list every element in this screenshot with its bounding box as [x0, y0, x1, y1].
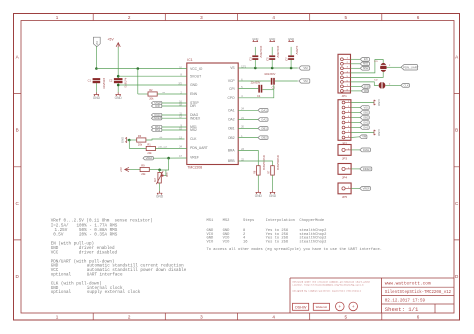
svg-text:GND: GND	[288, 37, 294, 41]
ground below R7	[269, 190, 277, 198]
capacitor C7 1u/50V	[285, 46, 300, 61]
wire C7 to GND	[290, 47, 292, 56]
node EN JP1 flag	[360, 57, 369, 61]
node OA2 JP2 flag	[360, 120, 369, 124]
svg-text:OB2: OB2	[228, 136, 235, 140]
node VM JP2 flag	[360, 135, 367, 139]
svg-text:ENN: ENN	[190, 92, 198, 96]
frame column label 3	[200, 15, 203, 319]
svg-text:+5V: +5V	[119, 167, 123, 172]
node OA2 output flag	[258, 118, 268, 122]
frame column tick	[381, 14, 383, 321]
wire C5 to GND	[271, 47, 273, 56]
wire JP2 OA2	[351, 122, 360, 124]
svg-text:C2: C2	[109, 79, 113, 83]
frame column tick	[92, 14, 94, 321]
svg-text:Designed by Stephan Watterott: Designed by Stephan Watterott (Watterott…	[293, 290, 361, 293]
svg-text:DIR: DIR	[364, 90, 368, 93]
wire GND to junction	[127, 139, 130, 141]
svg-text:STEP: STEP	[364, 85, 371, 88]
svg-text:JP3: JP3	[342, 157, 348, 161]
pin number 2 (SJ2)	[389, 83, 391, 85]
svg-text:1: 1	[56, 314, 59, 319]
svg-text:ChopperMode: ChopperMode	[299, 218, 324, 223]
svg-text:GND: GND	[190, 83, 198, 87]
resistor R1 20k	[146, 143, 155, 155]
svg-text:100n/50V: 100n/50V	[102, 78, 106, 89]
svg-text:MS2: MS2	[155, 128, 161, 132]
node OA1 JP2 flag	[360, 125, 369, 129]
frame row label C	[16, 201, 460, 206]
connector JP5 pin 1	[342, 187, 351, 190]
svg-text:1u/50V: 1u/50V	[295, 46, 299, 55]
svg-text:20k: 20k	[138, 142, 143, 146]
svg-text:UART interface: UART interface	[87, 273, 123, 278]
node OA1 output flag	[258, 108, 268, 112]
connector JP5 body	[338, 183, 351, 199]
title document name	[385, 290, 452, 295]
ground above C7	[288, 37, 294, 42]
svg-text:IC1: IC1	[187, 58, 192, 62]
wire MS1 to IC	[162, 126, 187, 128]
capacitor C4 22n/50V	[251, 80, 263, 98]
svg-text:6: 6	[417, 314, 420, 319]
svg-text:VM: VM	[362, 135, 366, 139]
svg-text:2: 2	[128, 314, 131, 319]
node OB1 output flag	[258, 126, 268, 130]
power +5V symbol (VREF divider)	[119, 167, 130, 172]
junction divider top	[158, 169, 161, 172]
svg-text:GND: GND	[377, 129, 381, 137]
svg-text:CLK: CLK	[404, 83, 409, 87]
wire INDEX to IC	[162, 117, 187, 119]
wire JP1 DIR	[351, 90, 362, 92]
title block outline	[290, 278, 454, 313]
wire DIAG to IC	[162, 114, 187, 116]
connector JP3 body	[338, 145, 351, 161]
capacitor C3 100n/50V	[249, 46, 264, 61]
note CLK modes	[51, 281, 141, 295]
IC1 right pin names	[227, 66, 235, 163]
note microstep table	[207, 218, 327, 244]
wire JP3 to DIAG	[351, 149, 360, 151]
svg-text:+: +	[352, 304, 355, 309]
svg-text:4: 4	[272, 314, 275, 319]
svg-text:driver disabled: driver disabled	[79, 250, 118, 255]
node CLK flag	[401, 83, 410, 87]
resistor R7 0R11	[268, 155, 279, 175]
wire C7 to VS	[290, 59, 292, 68]
svg-text:20% - 0.35A RMS: 20% - 0.35A RMS	[79, 233, 118, 238]
svg-text:Yes to 256: Yes to 256	[266, 240, 289, 244]
wire VIO to VCC_IO	[96, 68, 186, 70]
note PDN/UART modes	[51, 259, 187, 277]
svg-text:BRB: BRB	[228, 159, 236, 163]
solder jumper SJ2	[374, 79, 385, 89]
svg-text:PDN_UART: PDN_UART	[190, 146, 208, 150]
power +5V symbol	[107, 38, 120, 48]
svg-text:JP5: JP5	[342, 195, 348, 199]
svg-text:VIO: VIO	[95, 41, 99, 45]
svg-text:+5V: +5V	[107, 38, 114, 42]
svg-text:3: 3	[200, 314, 203, 319]
svg-text:optional: optional	[51, 273, 72, 278]
title date	[385, 300, 426, 304]
wire JP2 OA1	[351, 127, 360, 129]
IC1 right pin numbers	[241, 66, 246, 161]
svg-text:CPO: CPO	[227, 96, 235, 100]
net label en	[163, 92, 166, 94]
svg-text:GND: GND	[377, 99, 381, 107]
wire JP1 pin4 to SJ1	[351, 60, 384, 73]
junction 5VOUT	[117, 75, 120, 78]
svg-text:0.5V: 0.5V	[53, 233, 64, 238]
svg-text:02.12.2017 17:59: 02.12.2017 17:59	[385, 300, 426, 304]
ground flag left of R3	[120, 137, 126, 143]
wire JP2 pin1 GND	[351, 102, 374, 104]
wire DIR to IC	[162, 105, 187, 107]
wire R7 to GND	[272, 175, 274, 190]
wire JP2 OB2	[351, 117, 360, 119]
wire JP2 pin8 VM	[351, 136, 360, 139]
svg-text:VREF: VREF	[190, 156, 199, 160]
svg-text:+: +	[338, 304, 341, 309]
trimmer wiper arrow	[161, 174, 164, 176]
wire OA1	[238, 109, 258, 111]
node OB2 JP2 flag	[360, 115, 369, 119]
svg-text:MS2: MS2	[190, 128, 197, 132]
supply flag VIO	[93, 37, 100, 47]
wire C1 to GND	[95, 83, 97, 92]
junction VS C7	[290, 67, 293, 70]
svg-text:optional: optional	[51, 290, 72, 295]
svg-text:INDEX: INDEX	[154, 116, 162, 120]
svg-text:5: 5	[345, 314, 348, 319]
wire VREF node to divider	[160, 158, 169, 170]
IC1 left pin numbers	[178, 67, 182, 158]
svg-text:C3: C3	[249, 57, 253, 61]
wire JP1 EN	[351, 58, 361, 60]
svg-text:3: 3	[200, 15, 203, 20]
wire C2 to GND	[117, 83, 119, 92]
node INDEX JP4 flag	[360, 167, 372, 171]
wire +5V down	[117, 47, 119, 78]
wire C3 to GND	[254, 47, 256, 56]
wire into trimmer top	[159, 170, 161, 173]
ground above C3	[252, 37, 258, 42]
capacitor C6 100n/50V	[264, 72, 275, 89]
wire VS rail	[238, 67, 298, 69]
net label pdn_uart	[159, 146, 168, 149]
svg-text:R9: R9	[141, 164, 145, 168]
note EN modes	[51, 242, 118, 256]
svg-text:22n/50V: 22n/50V	[251, 80, 261, 84]
node OB2 output flag	[258, 136, 268, 140]
connector JP1 body	[338, 54, 351, 98]
node INDEX input flag	[151, 116, 161, 120]
svg-text:4u7/6V3: 4u7/6V3	[124, 78, 128, 88]
wire SJ2 to CLK flag	[386, 84, 401, 86]
wire BRA	[238, 151, 258, 166]
svg-text:100n/50V: 100n/50V	[276, 46, 280, 58]
junction VS C5	[271, 67, 274, 70]
svg-text:20k: 20k	[147, 151, 152, 155]
node STEP input flag	[151, 101, 161, 105]
note VRef table	[51, 219, 153, 238]
resistor R3 20k	[137, 134, 146, 146]
ground below trimmer	[156, 191, 164, 199]
svg-text:OA1: OA1	[363, 125, 369, 129]
connector JP3 pin 1	[342, 148, 351, 151]
svg-text:Interpolation: Interpolation	[266, 218, 295, 223]
svg-text:B: B	[455, 128, 458, 133]
svg-text:R3: R3	[138, 134, 142, 138]
solder jumper SJ1	[374, 61, 387, 72]
wire MS2 to IC	[162, 129, 187, 131]
wire CPO net	[238, 85, 274, 98]
node DIR input flag	[151, 104, 161, 108]
trimmer R10 4k7	[154, 171, 168, 184]
svg-text:VCC: VCC	[51, 250, 59, 255]
wire trimmer wiper	[164, 170, 166, 176]
svg-text:DIAG: DIAG	[363, 148, 369, 152]
wire C6 to flag	[275, 80, 298, 82]
wire JP1 STEP	[351, 85, 362, 87]
node DIAG input flag	[151, 113, 161, 117]
svg-text:GND: GND	[252, 37, 258, 41]
svg-text:6: 6	[417, 15, 420, 20]
SA logo	[349, 302, 358, 311]
wire R2 to ENN	[157, 93, 187, 95]
svg-text:100n/50V: 100n/50V	[259, 46, 263, 58]
frame row label D	[16, 274, 460, 279]
ground above C5	[269, 37, 275, 42]
wire JP1 MS2	[351, 67, 361, 69]
svg-text:JP1: JP1	[342, 94, 348, 98]
wire OB1	[238, 127, 258, 129]
wire to 5VOUT pin	[118, 75, 187, 77]
wire SJ1 to PDN_UART flag	[387, 66, 401, 68]
junction GND rail	[117, 84, 120, 87]
pin number 2 (SJ1)	[389, 65, 391, 67]
svg-text:MS2: MS2	[223, 219, 230, 223]
connector JP2 body	[338, 100, 351, 146]
wire C5 to VS	[271, 59, 273, 68]
frame column tick	[309, 14, 311, 321]
wire BRB	[238, 161, 272, 166]
frame row tick	[14, 239, 460, 241]
svg-text:C1: C1	[88, 79, 92, 83]
svg-text:GND: GND	[120, 137, 124, 143]
svg-text:R2: R2	[149, 88, 153, 92]
svg-text:CLK: CLK	[190, 137, 197, 141]
wire C3 to VS	[254, 59, 256, 68]
svg-text:stealthChop2: stealthChop2	[299, 239, 326, 244]
svg-text:VCP: VCP	[228, 79, 236, 83]
ground below R6	[255, 190, 263, 198]
wire R9 to trimmer	[149, 169, 159, 171]
ground JP2 pin1	[374, 99, 381, 107]
node OB1 JP2 flag	[360, 110, 369, 114]
junction pulldown node	[128, 139, 131, 142]
wire JP2 OB1	[351, 112, 360, 114]
svg-text:4k7: 4k7	[154, 177, 157, 182]
wire to R2	[138, 93, 148, 95]
svg-text:OA2: OA2	[228, 118, 235, 122]
wire to R1	[129, 148, 146, 150]
junction VS C3	[254, 67, 257, 70]
node DIAG JP3 flag	[360, 148, 371, 152]
svg-text:VCC_IO: VCC_IO	[190, 67, 203, 71]
capacitor C5 100n/50V	[266, 46, 281, 61]
CC logo	[336, 302, 345, 311]
wire GND pin rail	[118, 84, 187, 86]
wire VREF flag to pin	[153, 157, 186, 159]
node MS2 JP1 flag	[360, 66, 369, 70]
frame column label 6	[417, 15, 420, 319]
svg-text:OB2: OB2	[363, 115, 369, 119]
frame column label 4	[272, 15, 275, 319]
wire R1 to PDN_UART	[155, 148, 186, 150]
wire +5V to R9	[130, 169, 141, 171]
svg-text:VREF: VREF	[146, 156, 153, 160]
node VREF JP5 flag	[360, 186, 371, 190]
wire JP1 MS1	[351, 63, 361, 65]
svg-text:RS08G/0R11: RS08G/0R11	[276, 155, 279, 170]
node VM supply flag	[299, 66, 310, 70]
svg-text:SilentStepStick-TMC2208_v12: SilentStepStick-TMC2208_v12	[385, 290, 452, 295]
svg-text:20k: 20k	[149, 96, 154, 100]
svg-text:2: 2	[128, 15, 131, 20]
svg-text:BRA: BRA	[228, 149, 236, 153]
svg-text:PDN_UART: PDN_UART	[403, 65, 419, 69]
wire R3 to CLK	[146, 139, 185, 140]
svg-text:OSHW: OSHW	[295, 305, 307, 309]
OSHW logo	[293, 303, 309, 310]
ground below C1	[93, 92, 101, 100]
svg-text:4: 4	[272, 15, 275, 20]
wire trimmer to GND	[159, 183, 161, 191]
wire R6 to GND	[257, 175, 259, 190]
frame row label A	[16, 55, 460, 60]
svg-text:MS1: MS1	[207, 219, 215, 223]
svg-text:GND: GND	[93, 96, 101, 100]
connector JP1 pins	[341, 58, 351, 93]
svg-text:OA1: OA1	[261, 108, 267, 112]
svg-text:VM: VM	[303, 66, 308, 70]
svg-text:MS1: MS1	[363, 62, 369, 66]
capacitor C2 4u7/6V3	[109, 78, 128, 88]
node PDN_UART flag	[401, 65, 419, 70]
svg-text:DIR: DIR	[190, 104, 196, 108]
svg-text:JP4: JP4	[342, 176, 348, 180]
svg-text:VIO: VIO	[207, 240, 215, 244]
svg-text:16: 16	[243, 240, 248, 244]
title url text	[385, 281, 431, 287]
connector JP4 body	[338, 164, 351, 180]
svg-text:GND: GND	[269, 37, 275, 41]
svg-text:VIO: VIO	[363, 105, 367, 109]
frame row label B	[16, 128, 459, 133]
svg-text:5: 5	[345, 15, 348, 20]
op-amp U1 wires placeholder (none)	[0, 0, 1, 1]
svg-text:CPI: CPI	[229, 87, 235, 91]
svg-text:RS08G/0R11: RS08G/0R11	[262, 155, 265, 170]
svg-text:DIR: DIR	[155, 104, 160, 108]
svg-text:supply external clock: supply external clock	[87, 290, 141, 295]
svg-text:Sheet: 1/1: Sheet: 1/1	[385, 306, 419, 313]
node DIR JP1 flag	[361, 89, 368, 93]
connector JP2 pins	[342, 101, 351, 139]
connector JP4 pin 1	[342, 167, 351, 170]
junction VIO rail	[95, 67, 98, 70]
net label clk	[160, 137, 164, 139]
svg-text:GND: GND	[115, 96, 123, 100]
node MS2 input flag	[151, 128, 161, 132]
wire to R3	[129, 139, 136, 141]
svg-text:INDEX: INDEX	[363, 167, 371, 171]
title sheet number	[385, 306, 419, 313]
IC IC1 TMC2208 body	[187, 58, 238, 169]
node VREF input flag	[143, 156, 153, 160]
svg-text:1: 1	[56, 15, 59, 20]
svg-text:Watterott: Watterott	[316, 305, 327, 309]
svg-text:EN: EN	[364, 57, 368, 61]
wire C4 to CPO net	[262, 89, 273, 91]
junction VREF	[167, 157, 170, 160]
wire JP2 VIO	[351, 107, 360, 109]
svg-text:GND: GND	[255, 194, 263, 198]
wire pulldown vertical	[128, 140, 130, 149]
node VM flag (charge pump)	[299, 79, 310, 83]
svg-text:pdn_uart: pdn_uart	[159, 146, 168, 149]
svg-text:C5: C5	[266, 57, 270, 61]
svg-text:VREF: VREF	[363, 186, 370, 190]
wire OB2	[238, 137, 258, 139]
Watterott logo	[313, 303, 329, 310]
svg-text:To access all other modes (eg: To access all other modes (eg spreadCycl…	[207, 247, 383, 252]
wire JP1 pin5 to SJ1	[351, 72, 384, 78]
IC1 left pin names	[190, 67, 208, 159]
wire JP2 pin7 GND	[351, 132, 374, 134]
wire JP4 to INDEX	[351, 168, 360, 170]
node VIO JP2 flag	[360, 105, 369, 109]
node MS1 input flag	[151, 125, 161, 129]
ground below C2	[115, 92, 123, 100]
svg-text:OB1: OB1	[228, 127, 235, 131]
wire VCP	[238, 80, 270, 82]
svg-text:OB1: OB1	[261, 126, 267, 130]
frame column label 5	[345, 15, 348, 319]
svg-text:VM: VM	[303, 79, 308, 83]
junction ENN pullup tap	[137, 67, 140, 70]
node STEP JP1 flag	[361, 85, 370, 89]
svg-text:VIO: VIO	[223, 240, 231, 244]
frame row tick	[14, 93, 460, 95]
node MS1 JP1 flag	[360, 62, 369, 66]
wire STEP to IC	[162, 102, 187, 104]
svg-text:GND: GND	[269, 194, 277, 198]
note UART hint	[207, 247, 383, 252]
frame column label 2	[128, 15, 131, 319]
svg-text:OB2: OB2	[261, 136, 267, 140]
wire OA2	[238, 119, 258, 121]
svg-text:License. http://creativecommon: License. http://creativecommons.org/lice…	[293, 284, 365, 287]
svg-text:Steps: Steps	[243, 219, 254, 223]
ground JP2 pin7	[374, 129, 381, 137]
wire ENN pullup vertical	[137, 69, 139, 95]
svg-text:GND: GND	[156, 195, 164, 199]
